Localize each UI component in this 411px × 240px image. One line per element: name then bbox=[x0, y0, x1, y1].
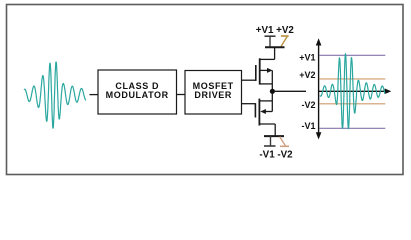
plot horizontal axis bbox=[319, 89, 392, 95]
wire driver to Q2 gate bbox=[242, 103, 256, 105]
level line +V1 bbox=[319, 54, 385, 56]
svg-text:+V1: +V1 bbox=[299, 53, 315, 63]
svg-text:-V1: -V1 bbox=[301, 121, 315, 131]
output waveform bbox=[320, 54, 385, 129]
svg-text:DRIVER: DRIVER bbox=[194, 90, 232, 100]
top supply bar bbox=[265, 46, 285, 48]
node output junction bbox=[270, 89, 275, 94]
plot vertical axis bbox=[316, 38, 322, 139]
bottom supply bar bbox=[264, 135, 284, 137]
wire output node to plot bbox=[274, 90, 306, 92]
svg-text:+V2: +V2 bbox=[299, 70, 315, 80]
wire modulator to driver bbox=[177, 94, 186, 96]
level line -V1 bbox=[319, 127, 385, 129]
input audio waveform bbox=[24, 62, 86, 128]
transistor Q2 (bottom MOSFET) bbox=[255, 91, 275, 136]
block CLASS D MODULATOR bbox=[98, 70, 177, 114]
level line +V2 bbox=[319, 78, 385, 80]
supply terminal +V1 bbox=[265, 36, 276, 47]
supply terminal -V2 bbox=[280, 137, 289, 147]
level line -V2 bbox=[319, 103, 385, 105]
supply terminal +V2 bbox=[281, 36, 289, 46]
wire input to modulator bbox=[90, 94, 99, 96]
transistor Q1 (top MOSFET) bbox=[256, 47, 275, 91]
svg-text:+V1 +V2: +V1 +V2 bbox=[256, 25, 295, 36]
wire driver to Q1 gate bbox=[242, 79, 257, 81]
svg-text:-V2: -V2 bbox=[301, 100, 315, 110]
block MOSFET DRIVER bbox=[185, 71, 242, 115]
svg-text:-V1 -V2: -V1 -V2 bbox=[259, 149, 293, 160]
svg-text:MODULATOR: MODULATOR bbox=[106, 90, 169, 100]
supply terminal -V1 bbox=[264, 136, 276, 146]
